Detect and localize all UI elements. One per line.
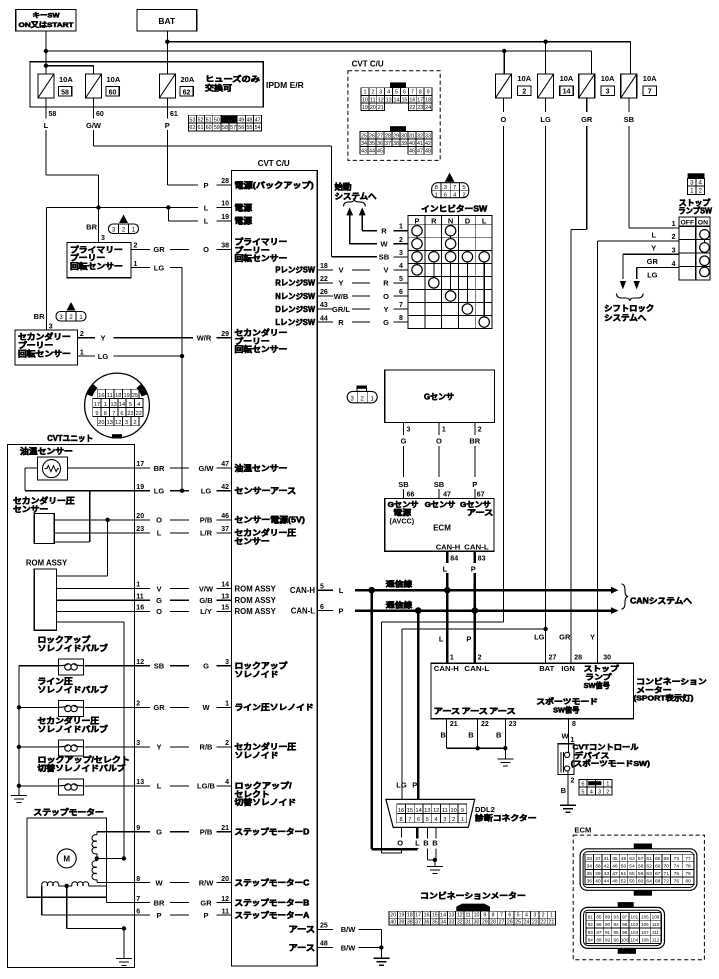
wire W to start system	[350, 240, 389, 249]
svg-text:99: 99	[622, 930, 628, 935]
svg-text:5: 5	[399, 276, 403, 283]
svg-text:IGN: IGN	[561, 664, 575, 673]
svg-text:44: 44	[604, 879, 610, 885]
svg-text:10A: 10A	[517, 74, 531, 83]
svg-text:V: V	[383, 266, 388, 275]
CVT C/U pin 4 solenoid row	[84, 779, 296, 807]
svg-text:48: 48	[246, 117, 252, 123]
solenoid ground bus	[17, 666, 21, 795]
svg-text:45: 45	[612, 856, 618, 862]
svg-text:10A: 10A	[643, 74, 657, 83]
svg-text:42: 42	[604, 864, 610, 870]
battery box BAT	[137, 9, 197, 31]
svg-text:(AVCC): (AVCC)	[390, 516, 415, 525]
svg-text:71: 71	[663, 871, 669, 877]
wire: secondary pressure sensor ground	[54, 491, 89, 542]
svg-text:Y: Y	[338, 279, 343, 288]
svg-text:LG: LG	[154, 487, 165, 496]
CVT C/U pin 20 step motor C row	[134, 876, 309, 888]
svg-text:3: 3	[125, 420, 128, 426]
svg-text:60: 60	[638, 879, 644, 885]
svg-text:GR: GR	[200, 898, 212, 907]
svg-text:47: 47	[417, 149, 423, 155]
svg-text:ON又はSTART: ON又はSTART	[19, 21, 75, 29]
svg-text:始動: 始動	[335, 182, 352, 192]
svg-text:18: 18	[115, 393, 121, 399]
svg-text:(SPORT表示灯): (SPORT表示灯)	[634, 694, 695, 703]
svg-text:LG: LG	[534, 633, 545, 642]
svg-text:G/W: G/W	[86, 121, 102, 130]
svg-text:2: 2	[399, 237, 403, 244]
svg-text:L: L	[157, 529, 162, 538]
svg-text:W: W	[155, 878, 163, 887]
CVT C/U pin 29 secondary pulley sensor row	[77, 328, 287, 355]
svg-text:5: 5	[129, 402, 132, 408]
svg-text:56: 56	[238, 125, 244, 131]
svg-text:67: 67	[655, 871, 661, 877]
svg-text:23: 23	[136, 526, 144, 533]
svg-text:R: R	[338, 318, 344, 327]
label BR and pin3 secondary sensor connector	[34, 312, 53, 330]
svg-text:LレンジSW: LレンジSW	[275, 318, 315, 327]
CVT C/U pin 43 DレンジSW row	[275, 302, 388, 314]
DDL2 bottom wires O L B B	[397, 827, 438, 866]
CVT C/U pin 5 CAN-H row	[290, 583, 344, 595]
svg-text:13: 13	[449, 913, 455, 919]
svg-text:R: R	[381, 227, 387, 236]
svg-text:45: 45	[377, 149, 383, 155]
CVT C/U pin 19 power	[204, 214, 253, 226]
ECM CAN-H pin 84 wire L	[443, 551, 459, 590]
pin 60 with wire label G/W	[86, 98, 104, 146]
stop lamp SW label	[678, 198, 712, 216]
svg-text:14: 14	[221, 582, 229, 589]
svg-text:36: 36	[424, 920, 430, 926]
svg-text:68: 68	[655, 879, 661, 885]
svg-text:95: 95	[614, 930, 620, 935]
svg-text:Gセンサ: Gセンサ	[425, 500, 456, 509]
svg-text:48: 48	[320, 941, 328, 948]
svg-text:L/R: L/R	[200, 529, 213, 538]
svg-text:28: 28	[490, 920, 496, 926]
CVT C/U pin 48 ground row	[289, 941, 382, 953]
svg-text:43: 43	[604, 871, 610, 877]
fuse 10A 14	[538, 74, 574, 98]
svg-text:GR/L: GR/L	[332, 305, 350, 314]
svg-text:3: 3	[672, 248, 676, 255]
svg-text:LG: LG	[647, 270, 658, 279]
stop lamp SW contact table	[679, 217, 710, 280]
inhibitor SW pin 6	[393, 289, 408, 296]
svg-text:85: 85	[596, 914, 602, 919]
wire LG from secondary sensor pin1	[77, 349, 184, 361]
svg-text:57: 57	[230, 125, 236, 131]
svg-text:ROM ASSY: ROM ASSY	[235, 584, 277, 593]
svg-text:7: 7	[648, 89, 652, 96]
svg-text:11: 11	[222, 908, 230, 915]
svg-text:108: 108	[641, 938, 649, 943]
svg-text:12: 12	[457, 913, 463, 919]
svg-text:4: 4	[225, 779, 229, 786]
svg-text:通信線: 通信線	[386, 578, 413, 588]
svg-text:61: 61	[646, 856, 652, 862]
svg-text:39: 39	[401, 141, 407, 147]
svg-text:SB: SB	[624, 115, 635, 124]
svg-text:93: 93	[614, 914, 620, 919]
CVT unit pin 17	[136, 461, 144, 468]
svg-text:17: 17	[417, 97, 423, 103]
svg-text:3: 3	[49, 323, 53, 330]
label CVT unit	[47, 434, 93, 443]
svg-text:33: 33	[425, 133, 431, 139]
svg-text:3: 3	[606, 89, 610, 96]
inhibitor SW pin 3	[393, 250, 408, 257]
CVT C/U pin 3 solenoid row	[84, 659, 287, 679]
DDL2 diagnostic connector	[386, 799, 475, 827]
svg-text:62: 62	[189, 125, 195, 131]
ECM connector lower grid	[581, 902, 665, 954]
ground: CVT control device	[560, 805, 576, 812]
svg-text:G/B: G/B	[199, 596, 213, 605]
CVT C/U pin 2 solenoid row	[84, 740, 296, 760]
svg-text:59: 59	[214, 125, 220, 131]
svg-text:O: O	[397, 838, 403, 847]
svg-text:Y: Y	[651, 244, 656, 253]
svg-text:41: 41	[417, 141, 423, 147]
svg-text:74: 74	[674, 864, 680, 870]
wire label SB below fuse 7	[624, 98, 635, 124]
CVT C/U pin 46 sensor power row	[54, 513, 305, 525]
primary sensor connector oval 321	[109, 215, 139, 234]
svg-text:112: 112	[652, 938, 660, 943]
svg-text:コンビネーションメーター: コンビネーションメーター	[420, 891, 526, 901]
wire R to start system	[362, 227, 387, 236]
svg-text:30: 30	[401, 133, 407, 139]
svg-text:5: 5	[462, 185, 465, 191]
svg-text:L: L	[652, 230, 657, 239]
ground: DDL2	[427, 866, 443, 873]
svg-text:86: 86	[596, 922, 602, 927]
svg-text:49: 49	[621, 856, 627, 862]
svg-text:11: 11	[465, 913, 470, 919]
svg-text:アース: アース	[289, 943, 316, 952]
CVT unit pin 1	[136, 582, 140, 589]
svg-text:30: 30	[474, 920, 480, 926]
svg-text:56: 56	[629, 879, 635, 885]
svg-text:16: 16	[409, 97, 415, 103]
label combination meter SPORT	[634, 676, 708, 703]
svg-text:B/W: B/W	[341, 943, 357, 952]
inhibitor SW contact table	[408, 216, 492, 329]
wire: O jog to DDL2	[382, 622, 504, 853]
svg-text:LG: LG	[98, 352, 109, 361]
svg-text:ECM: ECM	[433, 524, 451, 533]
svg-text:2: 2	[699, 188, 703, 195]
svg-text:46: 46	[221, 513, 229, 520]
svg-text:LG: LG	[201, 487, 212, 496]
svg-text:59: 59	[638, 871, 644, 877]
svg-text:10A: 10A	[59, 75, 73, 84]
svg-text:10A: 10A	[107, 75, 121, 84]
svg-text:63: 63	[646, 871, 652, 877]
svg-text:40: 40	[409, 141, 415, 147]
CVT C/U pin 11 step motor A row	[134, 908, 309, 920]
svg-text:G: G	[156, 828, 162, 837]
svg-text:111: 111	[652, 930, 659, 935]
svg-text:2: 2	[478, 655, 482, 662]
svg-text:回転センサー: 回転センサー	[235, 344, 288, 354]
solenoid valve セカンダリー圧	[19, 716, 108, 756]
svg-text:O: O	[500, 115, 506, 124]
svg-text:インヒビターSW: インヒビターSW	[421, 204, 487, 214]
svg-text:21: 21	[378, 105, 384, 111]
svg-text:L: L	[157, 782, 162, 791]
svg-text:38: 38	[407, 920, 413, 926]
svg-text:10: 10	[451, 808, 457, 814]
svg-text:20: 20	[370, 105, 376, 111]
svg-text:38: 38	[221, 243, 229, 250]
svg-text:SW信号: SW信号	[584, 681, 610, 690]
svg-text:24: 24	[524, 920, 530, 926]
CVT C/U pin 14 ROM ASSY row	[56, 582, 276, 594]
svg-text:32: 32	[417, 133, 423, 139]
solenoid valve ライン圧	[19, 677, 108, 716]
svg-text:CAN-L: CAN-L	[464, 543, 489, 552]
svg-text:3: 3	[598, 789, 601, 795]
svg-text:34: 34	[361, 141, 367, 147]
combination meter connector illustration	[389, 891, 556, 926]
svg-text:13: 13	[221, 593, 229, 600]
svg-text:29: 29	[393, 133, 399, 139]
svg-text:回転センサー: 回転センサー	[18, 348, 71, 358]
svg-text:W: W	[380, 240, 388, 249]
svg-text:14: 14	[415, 808, 421, 814]
svg-text:L: L	[204, 203, 209, 212]
svg-text:42: 42	[425, 141, 431, 147]
svg-text:26: 26	[507, 920, 513, 926]
wire: branch to pin 19	[168, 208, 198, 221]
svg-text:BR: BR	[154, 898, 165, 907]
svg-text:11: 11	[107, 393, 113, 399]
svg-text:キーSW: キーSW	[33, 12, 61, 20]
svg-text:1: 1	[435, 193, 438, 199]
svg-text:3: 3	[407, 426, 411, 433]
svg-text:37: 37	[221, 526, 229, 533]
svg-text:52: 52	[198, 117, 204, 123]
svg-text:42: 42	[221, 484, 229, 491]
svg-text:2: 2	[462, 193, 465, 199]
svg-text:7: 7	[453, 185, 456, 191]
svg-text:8: 8	[572, 721, 576, 728]
svg-text:29: 29	[221, 331, 229, 338]
svg-text:19: 19	[136, 484, 144, 491]
svg-text:54: 54	[255, 125, 261, 131]
svg-text:RレンジSW: RレンジSW	[275, 279, 315, 288]
svg-text:Gセンサ: Gセンサ	[424, 393, 454, 402]
G sensor box	[385, 370, 495, 423]
svg-text:40: 40	[595, 879, 601, 885]
svg-text:6: 6	[581, 782, 584, 788]
svg-text:96: 96	[614, 938, 620, 943]
svg-text:17: 17	[136, 461, 144, 468]
svg-text:BR: BR	[86, 223, 97, 232]
wire: GR feed down with jog to meter IGN	[571, 126, 587, 663]
svg-text:アース: アース	[434, 707, 461, 716]
svg-text:20: 20	[98, 420, 104, 426]
CVT C/U connector grid 25-48	[360, 126, 432, 154]
svg-text:G/W: G/W	[199, 464, 215, 473]
svg-text:12: 12	[115, 420, 121, 426]
svg-text:12: 12	[378, 97, 384, 103]
svg-text:8: 8	[399, 315, 403, 322]
svg-text:B: B	[423, 838, 429, 847]
svg-text:13: 13	[107, 420, 113, 426]
svg-text:51: 51	[206, 117, 212, 123]
svg-text:27: 27	[549, 655, 557, 662]
svg-text:41: 41	[604, 856, 610, 862]
svg-text:25: 25	[361, 133, 367, 139]
svg-text:4: 4	[137, 402, 140, 408]
start system arrows	[344, 199, 366, 244]
svg-text:8: 8	[104, 411, 107, 417]
svg-text:4: 4	[699, 180, 703, 187]
svg-text:6: 6	[508, 913, 511, 919]
meter pin 27 BAT	[534, 633, 556, 662]
svg-text:65: 65	[655, 856, 661, 862]
inhibitor SW pin 1	[393, 224, 408, 231]
wire: key switch feed bus	[44, 31, 592, 74]
svg-text:16: 16	[136, 605, 144, 612]
wire: ROM ground to common	[56, 622, 124, 859]
svg-text:15: 15	[432, 913, 438, 919]
svg-text:83: 83	[478, 555, 486, 562]
svg-text:44: 44	[369, 149, 375, 155]
svg-text:1: 1	[363, 90, 366, 96]
svg-text:システムへ: システムへ	[335, 192, 377, 201]
inhibitor SW pin 2	[393, 237, 408, 244]
svg-text:66: 66	[655, 864, 661, 870]
G sensor pin 1 wire O/SB to ECM 47	[434, 423, 451, 499]
svg-text:62: 62	[183, 89, 191, 96]
svg-text:3: 3	[101, 235, 105, 242]
svg-text:20: 20	[390, 913, 396, 919]
svg-text:6: 6	[444, 193, 447, 199]
svg-text:CVT C/U: CVT C/U	[258, 159, 290, 168]
step motor winding wires	[42, 832, 135, 931]
svg-text:91: 91	[605, 930, 611, 935]
svg-text:8: 8	[419, 90, 422, 96]
wire: P from fuse 62 to pin 28	[167, 184, 198, 186]
solenoid valve ロックアップ/セレクト	[19, 755, 130, 795]
svg-text:ランプSW: ランプSW	[678, 205, 712, 215]
svg-text:CAN-L: CAN-L	[464, 664, 489, 673]
svg-text:11: 11	[370, 97, 376, 103]
svg-text:2: 2	[672, 234, 676, 241]
svg-text:84: 84	[450, 555, 458, 562]
svg-text:2: 2	[542, 913, 545, 919]
svg-text:9: 9	[136, 825, 140, 832]
svg-text:2: 2	[80, 331, 84, 338]
svg-text:15: 15	[401, 97, 407, 103]
svg-text:B: B	[496, 730, 502, 739]
svg-text:13: 13	[136, 779, 144, 786]
wire: G/W from fuse 60 to inhibitor SW common	[94, 146, 378, 257]
svg-text:35: 35	[432, 920, 438, 926]
svg-text:1: 1	[399, 224, 403, 231]
svg-text:2: 2	[225, 740, 229, 747]
svg-text:47: 47	[612, 871, 618, 877]
svg-text:78: 78	[685, 864, 691, 870]
CVT C/U pin 38 primary pulley sensor row	[131, 237, 288, 264]
svg-text:88: 88	[596, 938, 602, 943]
svg-text:G: G	[156, 596, 162, 605]
CVT C/U pin 22 RレンジSW row	[275, 276, 389, 288]
svg-text:PレンジSW: PレンジSW	[275, 266, 315, 275]
svg-text:1: 1	[104, 402, 107, 408]
svg-text:1: 1	[606, 782, 609, 788]
svg-text:2: 2	[606, 789, 609, 795]
svg-text:1: 1	[442, 426, 446, 433]
svg-text:26: 26	[369, 133, 375, 139]
CVT unit box	[8, 445, 135, 968]
fuse 10A 7	[621, 74, 657, 98]
inhibitor SW pin 4	[393, 263, 408, 270]
svg-text:(スポーツモードSW): (スポーツモードSW)	[571, 759, 651, 768]
svg-text:P/B: P/B	[200, 828, 213, 837]
svg-text:4: 4	[525, 913, 528, 919]
sport mode SW connector 6..1/5432	[579, 779, 612, 795]
svg-text:G: G	[383, 318, 389, 327]
svg-text:センサーアース: センサーアース	[235, 487, 297, 496]
svg-text:Y: Y	[100, 334, 105, 343]
svg-text:BAT: BAT	[158, 16, 176, 26]
svg-text:2: 2	[134, 243, 138, 250]
svg-text:ソレノイド: ソレノイド	[235, 670, 279, 679]
svg-text:Y: Y	[156, 743, 161, 752]
svg-text:52: 52	[621, 879, 627, 885]
svg-text:M: M	[63, 855, 70, 864]
svg-text:R: R	[383, 279, 389, 288]
svg-text:2: 2	[133, 420, 136, 426]
svg-text:ステップモーターB: ステップモーターB	[235, 897, 310, 907]
svg-text:O: O	[156, 516, 162, 525]
CVT C/U pin 1 solenoid row	[84, 701, 314, 713]
svg-text:2: 2	[452, 817, 455, 823]
svg-text:66: 66	[407, 492, 415, 499]
svg-text:GR: GR	[153, 703, 165, 712]
CVT control device pin 2 ground	[561, 771, 575, 805]
svg-text:BR: BR	[469, 436, 480, 445]
svg-text:7: 7	[411, 90, 414, 96]
svg-text:11: 11	[442, 808, 448, 814]
svg-text:33: 33	[587, 856, 593, 862]
wire: SB feed to stop lamp SW pin1	[629, 126, 667, 228]
svg-text:ヒューズのみ: ヒューズのみ	[205, 74, 261, 84]
svg-text:109: 109	[652, 914, 660, 919]
wire: LG branch to DDL2	[402, 627, 548, 799]
svg-text:4: 4	[387, 90, 390, 96]
stop SW pin 2 wire Y	[597, 234, 679, 663]
svg-text:16: 16	[424, 913, 430, 919]
svg-text:V: V	[156, 584, 161, 593]
CVT C/U connector grid 1-24	[361, 82, 432, 111]
svg-text:76: 76	[674, 879, 680, 885]
svg-text:48: 48	[425, 149, 431, 155]
svg-text:22: 22	[481, 721, 489, 728]
svg-text:20A: 20A	[181, 75, 195, 84]
svg-text:75: 75	[674, 871, 680, 877]
svg-text:P: P	[165, 121, 170, 130]
